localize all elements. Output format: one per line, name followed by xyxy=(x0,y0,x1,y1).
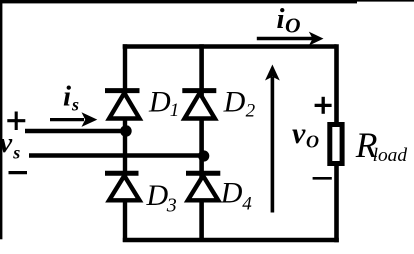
diode D3 xyxy=(105,173,140,200)
border frame top thick segment xyxy=(0,0,357,3)
label - output polarity xyxy=(313,177,332,180)
svg-text:i: i xyxy=(277,3,285,35)
label is xyxy=(63,81,79,115)
svg-text:D: D xyxy=(146,179,169,212)
voltage arrow vO xyxy=(265,65,280,213)
label vO xyxy=(292,117,319,151)
svg-text:1: 1 xyxy=(170,100,180,121)
border frame left edge xyxy=(0,0,2,239)
svg-text:D: D xyxy=(220,177,243,210)
svg-text:O: O xyxy=(285,14,301,38)
svg-text:4: 4 xyxy=(242,194,252,215)
svg-text:v: v xyxy=(0,127,13,159)
svg-text:i: i xyxy=(63,81,71,113)
label D2 xyxy=(223,86,256,122)
svg-text:load: load xyxy=(373,145,408,166)
diode D2 xyxy=(182,91,216,119)
current arrow iO xyxy=(257,32,324,46)
wire middle column xyxy=(199,44,204,242)
svg-text:O: O xyxy=(306,131,319,151)
label vs xyxy=(0,127,20,163)
border frame top thin line xyxy=(0,0,414,2)
diode D1 xyxy=(105,91,140,119)
svg-text:D: D xyxy=(223,86,246,119)
wire vs top terminal xyxy=(25,129,127,133)
resistor R_load xyxy=(330,125,342,164)
wire right branch lower xyxy=(334,164,339,242)
node junction dot left xyxy=(120,125,132,137)
label iO xyxy=(277,3,301,37)
label + output polarity xyxy=(315,97,332,114)
svg-text:s: s xyxy=(12,142,20,162)
wire bottom bus xyxy=(123,238,339,243)
svg-text:3: 3 xyxy=(166,195,177,217)
label D3 xyxy=(146,179,177,217)
label - source polarity xyxy=(9,171,28,174)
current arrow is xyxy=(50,112,97,127)
svg-text:s: s xyxy=(71,95,79,115)
svg-text:2: 2 xyxy=(246,101,256,122)
wire right branch upper xyxy=(334,44,339,124)
wire left column xyxy=(123,44,127,242)
svg-text:D: D xyxy=(148,85,171,118)
svg-text:v: v xyxy=(292,117,306,150)
label D1 xyxy=(148,85,179,121)
wire vs bottom terminal xyxy=(29,153,205,157)
wire top bus xyxy=(123,44,337,49)
label + source polarity xyxy=(7,112,25,131)
label R_load xyxy=(355,125,408,166)
label D4 xyxy=(220,177,253,215)
node junction dot middle xyxy=(198,150,209,161)
diode D4 xyxy=(186,173,220,200)
